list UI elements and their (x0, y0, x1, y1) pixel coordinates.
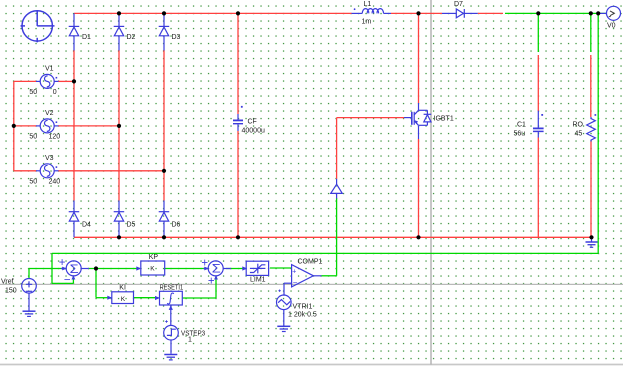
svg-text:+: + (208, 276, 215, 288)
svg-text:L1: L1 (364, 1, 372, 8)
svg-text:−: − (64, 274, 71, 286)
svg-text:Σ: Σ (212, 264, 221, 276)
svg-text:D4: D4 (82, 221, 91, 228)
svg-text:VTRI1: VTRI1 (293, 304, 313, 311)
svg-text:D7: D7 (454, 1, 463, 8)
svg-text:C1: C1 (517, 121, 526, 128)
svg-text:K: K (150, 265, 155, 272)
svg-text:1 20k 0.5: 1 20k 0.5 (288, 312, 317, 319)
svg-text:40000u: 40000u (242, 128, 265, 135)
svg-text:Vref: Vref (1, 278, 14, 285)
svg-text:D1: D1 (82, 34, 91, 41)
svg-text:VSTEP3: VSTEP3 (181, 330, 205, 337)
svg-text:45: 45 (575, 131, 583, 138)
svg-text:CF: CF (248, 118, 257, 125)
svg-text:COMP1: COMP1 (298, 259, 323, 266)
svg-text:KP: KP (149, 254, 159, 261)
svg-text:+: + (59, 257, 66, 269)
svg-text:V0: V0 (607, 23, 616, 30)
svg-text:D3: D3 (172, 34, 181, 41)
svg-text:56u: 56u (514, 131, 526, 138)
svg-text:−: − (293, 278, 298, 287)
svg-text:RESETI1: RESETI1 (160, 284, 184, 291)
svg-text:KI: KI (119, 284, 126, 291)
svg-text:50: 50 (29, 89, 37, 96)
svg-text:1m: 1m (362, 18, 372, 25)
svg-text:D6: D6 (172, 221, 181, 228)
svg-text:RO: RO (573, 121, 584, 128)
svg-text:D5: D5 (127, 221, 136, 228)
svg-text:K: K (121, 296, 126, 303)
svg-text:Σ: Σ (70, 264, 79, 276)
svg-text:IGBT1: IGBT1 (434, 116, 454, 123)
svg-text:150: 150 (5, 288, 17, 295)
svg-text:120: 120 (49, 134, 61, 141)
svg-text:50: 50 (29, 134, 37, 141)
svg-text:V1: V1 (45, 66, 54, 73)
svg-text:LIM1: LIM1 (250, 277, 266, 284)
svg-text:1: 1 (188, 337, 192, 344)
svg-text:50: 50 (29, 179, 37, 186)
svg-text:240: 240 (49, 179, 61, 186)
svg-text:+: + (201, 257, 208, 269)
svg-text:+: + (292, 269, 296, 276)
svg-text:0: 0 (53, 89, 57, 96)
svg-text:D2: D2 (127, 34, 136, 41)
svg-text:V3: V3 (45, 155, 54, 162)
svg-text:V2: V2 (45, 110, 54, 117)
